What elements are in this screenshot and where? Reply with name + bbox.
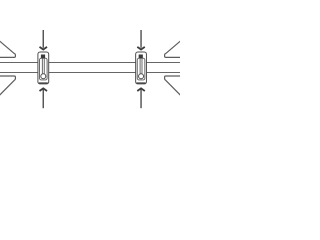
left up force arrow shaft — [42, 89, 44, 108]
right up force arrowhead — [137, 88, 145, 91]
left clamp pin circle — [41, 74, 46, 79]
right compression arrowhead upper half — [165, 41, 181, 58]
right clamp bottom rim — [137, 82, 146, 84]
left compression arrowhead upper half — [0, 41, 15, 58]
right clamp slot — [140, 58, 142, 73]
left compression arrowhead lower half — [0, 76, 15, 96]
right clamp knob — [139, 55, 143, 59]
bar bottom line — [0, 72, 180, 74]
left clamp slot — [42, 58, 44, 73]
bar top line — [0, 62, 180, 64]
right clamp pin circle — [139, 74, 144, 79]
left up force arrowhead — [40, 88, 48, 91]
left clamp inner wall — [40, 58, 48, 80]
left clamp body outer shell — [38, 52, 49, 84]
right down force arrowhead — [137, 47, 145, 50]
right up force arrow shaft — [140, 89, 142, 108]
left down force arrowhead — [40, 47, 48, 50]
right clamp inner wall — [137, 58, 145, 80]
right down force arrow shaft — [140, 30, 142, 48]
left clamp bottom rim — [39, 82, 48, 84]
right compression arrowhead lower half — [165, 76, 181, 96]
left clamp knob — [41, 55, 45, 59]
left down force arrow shaft — [42, 30, 44, 48]
right clamp body outer shell — [136, 52, 147, 84]
